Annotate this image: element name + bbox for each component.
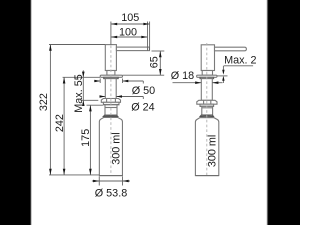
head body xyxy=(105,45,116,71)
spout arm xyxy=(116,47,149,51)
65 top / bottom xyxy=(159,51,162,57)
dim 105 line xyxy=(111,23,150,25)
arrowheads (black) xyxy=(49,23,225,183)
right view: dim O18 line xyxy=(173,82,202,84)
right view: Max2 leader xyxy=(224,65,253,67)
centerline right view xyxy=(206,43,208,175)
ext: flange edges down xyxy=(99,79,101,84)
dim 242 line xyxy=(63,77,65,175)
ext: counter plane left (flange bottom) xyxy=(63,76,100,78)
ext: flange top plane right xyxy=(123,74,165,76)
ext: head top left xyxy=(49,44,105,46)
svg-text:322: 322 xyxy=(38,93,50,111)
washer xyxy=(200,104,214,106)
dim 322 line xyxy=(49,45,51,175)
105 left / right xyxy=(111,23,117,26)
cone flare xyxy=(200,115,213,116)
bottle shoulder + body xyxy=(99,118,122,176)
svg-text:Ø 53.8: Ø 53.8 xyxy=(95,187,127,199)
Max2 arrows xyxy=(222,70,224,75)
ext: spout tip verticals xyxy=(147,22,149,51)
O24 outside arrows xyxy=(100,95,106,98)
O50 outside arrows xyxy=(94,80,100,83)
flange plate xyxy=(197,75,217,77)
svg-text:Ø 18: Ø 18 xyxy=(171,70,194,82)
head bottom neck xyxy=(202,71,212,76)
tube xyxy=(201,79,212,101)
svg-text:Max. 55: Max. 55 xyxy=(73,74,85,112)
svg-text:100: 100 xyxy=(119,26,137,38)
right black pillarbox bar xyxy=(267,0,303,228)
svg-text:105: 105 xyxy=(121,12,139,24)
svg-text:Ø 50: Ø 50 xyxy=(132,85,155,97)
O18 outside arrows xyxy=(195,81,201,84)
ext: flange right edge (right view) xyxy=(217,75,228,77)
svg-text:300 ml: 300 ml xyxy=(206,135,218,167)
dim 65 line xyxy=(159,51,161,75)
322 top / bottom xyxy=(49,45,52,51)
ext: spout bottom right xyxy=(152,50,165,52)
dim Max55 line xyxy=(82,70,84,105)
flange gasket xyxy=(200,77,214,78)
svg-text:65: 65 xyxy=(148,56,160,68)
100 left / right xyxy=(111,36,117,39)
left black pillarbox bar xyxy=(0,0,31,228)
ext: centerline up from head xyxy=(110,22,112,45)
flange gasket xyxy=(104,77,119,78)
svg-text:242: 242 xyxy=(54,114,66,132)
ext: bottle bottom left xyxy=(49,174,99,176)
tube xyxy=(105,79,116,99)
ext: nut bottom left xyxy=(81,99,99,101)
flange plate xyxy=(100,75,122,77)
svg-text:175: 175 xyxy=(80,129,92,147)
bottle neck xyxy=(105,105,117,115)
dim 175 line xyxy=(89,105,91,175)
dim 100 line xyxy=(111,36,148,38)
centerline left view xyxy=(110,46,112,176)
svg-text:300 ml: 300 ml xyxy=(111,132,123,164)
nut xyxy=(101,99,120,103)
dim O24: line to label xyxy=(116,96,143,98)
nut xyxy=(197,100,217,104)
svg-text:Ø 24: Ø 24 xyxy=(131,101,154,113)
242 top / bottom xyxy=(63,77,66,83)
dim O53.8 xyxy=(98,176,100,185)
ext: washer bottom left xyxy=(87,104,103,106)
bottle shoulder + body xyxy=(195,118,218,176)
spout arm (capsule) xyxy=(215,47,247,51)
dim O50: line to label xyxy=(123,80,144,82)
head bottom neck xyxy=(107,71,115,76)
175 top / bottom xyxy=(89,105,92,111)
svg-text:Max. 2: Max. 2 xyxy=(224,55,256,67)
cone flare xyxy=(103,115,117,116)
washer xyxy=(103,102,119,105)
O53.8 outside arrows xyxy=(93,180,99,183)
Max55 outside arrows xyxy=(82,72,85,78)
bottle neck xyxy=(202,106,213,115)
head body xyxy=(201,45,214,71)
